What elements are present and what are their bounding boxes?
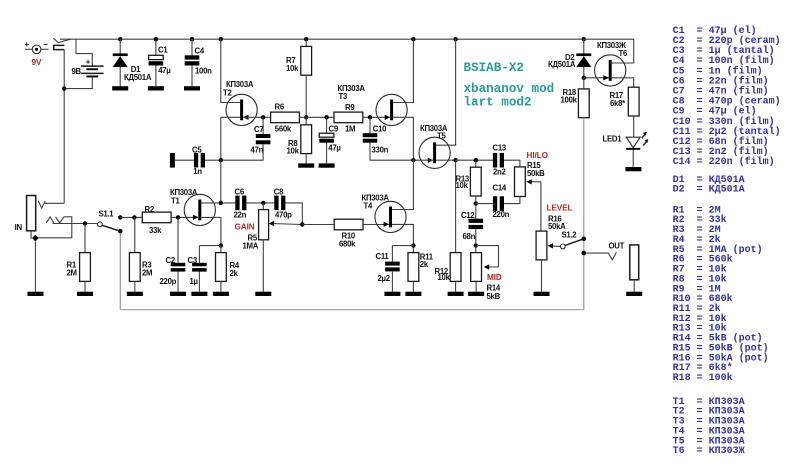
svg-text:КД501А: КД501А xyxy=(124,73,152,82)
svg-text:47n: 47n xyxy=(251,145,264,154)
resistor R7 xyxy=(305,39,307,46)
node S1.1 top contact xyxy=(118,215,122,219)
svg-text:T3: T3 xyxy=(339,92,348,101)
output jack xyxy=(630,245,639,280)
svg-text:330n: 330n xyxy=(372,145,389,154)
resistor R11 xyxy=(412,246,414,253)
svg-text:R9: R9 xyxy=(345,103,355,112)
svg-text:68n: 68n xyxy=(463,232,476,241)
node rail C4 xyxy=(190,37,194,41)
svg-text:100k: 100k xyxy=(561,96,578,105)
svg-text:C2: C2 xyxy=(166,256,176,265)
wire R13C14 xyxy=(476,203,493,205)
svg-text:C5: C5 xyxy=(192,145,202,154)
capacitor C11 xyxy=(392,245,413,247)
svg-text:T6: T6 xyxy=(619,49,628,58)
node T1 drain xyxy=(219,201,223,205)
plug tip of DC jack xyxy=(54,45,65,49)
resistor R18 xyxy=(583,78,585,89)
svg-text:C12: C12 xyxy=(461,211,475,220)
resistor R12 xyxy=(455,160,457,252)
wire rail start xyxy=(60,38,584,40)
node R13 bottom xyxy=(474,201,478,205)
node battery-minus junction xyxy=(62,86,66,90)
svg-text:T5: T5 xyxy=(437,132,446,141)
svg-text:C1: C1 xyxy=(158,45,168,54)
jack ring contact xyxy=(38,201,45,208)
svg-text:BSIAB-X2: BSIAB-X2 xyxy=(464,61,524,75)
node D2 R18 T6gate xyxy=(582,76,586,80)
DC power jack J1 xyxy=(32,45,41,54)
wire T2 source xyxy=(221,117,240,160)
svg-text:10k: 10k xyxy=(287,147,300,156)
svg-text:680k: 680k xyxy=(339,239,356,248)
svg-text:+: + xyxy=(25,40,30,49)
node R2 C2 T1gate xyxy=(176,215,180,219)
svg-text:47µ: 47µ xyxy=(328,143,341,152)
wire T5source to C13 xyxy=(456,159,493,161)
capacitor C1 xyxy=(155,39,157,55)
svg-text:1M: 1M xyxy=(345,125,355,134)
capacitor C14 xyxy=(493,196,497,211)
svg-text:C9: C9 xyxy=(329,124,339,133)
ground C9 xyxy=(326,162,328,164)
svg-text:9V: 9V xyxy=(32,58,42,67)
diode D2 xyxy=(583,39,585,54)
capacitor C7 xyxy=(262,117,264,134)
switch S1.1 xyxy=(98,222,103,227)
svg-text:2k: 2k xyxy=(420,260,429,269)
svg-text:1µ: 1µ xyxy=(190,277,199,286)
ground R16 xyxy=(541,291,543,293)
capacitor C2 xyxy=(177,217,179,262)
ground R12 xyxy=(455,291,457,293)
ground C4 xyxy=(191,85,193,87)
svg-text:MID: MID xyxy=(487,273,502,282)
switch S1.2 xyxy=(560,244,565,249)
svg-text:T2: T2 xyxy=(223,88,232,97)
svg-text:S1.1: S1.1 xyxy=(99,209,115,218)
R16 wiper xyxy=(550,245,561,248)
node R5 top xyxy=(261,201,265,205)
wire T6 drain xyxy=(584,39,634,63)
svg-text:2µ2: 2µ2 xyxy=(378,274,391,283)
svg-text:C14: C14 xyxy=(493,184,507,193)
wire T3 source xyxy=(393,117,414,160)
DC jack switch contact xyxy=(53,38,70,42)
wire battery negative xyxy=(64,77,92,88)
wire T2 gate xyxy=(243,116,271,118)
capacitor C4 xyxy=(191,39,193,55)
svg-text:1n: 1n xyxy=(193,167,202,176)
svg-text:xbananov mod: xbananov mod xyxy=(464,82,555,96)
potentiometer R5 xyxy=(262,203,264,210)
ground R11 xyxy=(412,291,414,293)
node rail T3 xyxy=(411,37,415,41)
wire R6out to R9 xyxy=(299,116,334,118)
svg-text:LED1: LED1 xyxy=(603,135,623,144)
resistor R17 xyxy=(628,87,639,116)
node OUT tap xyxy=(582,251,586,255)
node R14 top xyxy=(474,243,478,247)
resistor R13 xyxy=(475,160,477,167)
capacitor C9 xyxy=(326,117,328,133)
wire bypass net xyxy=(583,118,585,310)
capacitor C6 xyxy=(235,196,239,211)
ground C2 xyxy=(177,291,179,293)
R15 wiper xyxy=(529,181,541,183)
wire T5 drain xyxy=(436,39,456,145)
OUT jack tip contact xyxy=(608,252,616,259)
svg-text:T6 = КП303Ж: T6 = КП303Ж xyxy=(673,446,745,457)
svg-text:lart mod2: lart mod2 xyxy=(464,95,532,109)
svg-text:22n: 22n xyxy=(234,210,247,219)
svg-text:LEVEL: LEVEL xyxy=(547,203,573,212)
wire C6 to C8 xyxy=(246,202,274,204)
resistor R6 xyxy=(271,112,300,123)
capacitor C5 xyxy=(170,153,175,168)
capacitor C3 xyxy=(199,245,221,247)
svg-text:50kA: 50kA xyxy=(548,222,566,231)
wire T5 source xyxy=(436,159,456,161)
wire node to T1 drain xyxy=(220,160,222,203)
resistor R8 xyxy=(305,117,307,125)
ground IN xyxy=(34,241,36,291)
node T5 source xyxy=(453,158,457,162)
wire T1 drain xyxy=(201,202,235,204)
node rail D1 xyxy=(118,37,122,41)
jack sleeve node xyxy=(30,231,32,235)
svg-text:220p: 220p xyxy=(160,277,177,286)
svg-text:IN: IN xyxy=(15,223,23,232)
resistor R1 xyxy=(84,224,86,253)
node R3 top xyxy=(132,215,136,219)
svg-text:S1.2: S1.2 xyxy=(562,231,578,240)
node T5 gate xyxy=(411,158,415,162)
svg-text:10k: 10k xyxy=(438,273,451,282)
transistor T6 xyxy=(595,55,626,86)
svg-text:470p: 470p xyxy=(275,210,292,219)
svg-text:100n: 100n xyxy=(195,66,212,75)
ground LED1 xyxy=(632,166,634,168)
transistor T3 xyxy=(376,94,407,125)
ground C3 xyxy=(198,291,200,293)
svg-text:R2: R2 xyxy=(145,205,155,214)
svg-text:КД501А: КД501А xyxy=(548,60,576,69)
svg-text:2M: 2M xyxy=(142,269,152,278)
svg-text:C14 = 220n (film): C14 = 220n (film) xyxy=(673,156,775,168)
R5 wiper xyxy=(271,224,302,225)
svg-text:C3: C3 xyxy=(188,256,198,265)
svg-text:2n2: 2n2 xyxy=(493,168,506,177)
wire T6 source xyxy=(612,78,634,87)
ground R14 xyxy=(475,291,477,293)
svg-text:C13: C13 xyxy=(493,144,507,153)
svg-text:47µ: 47µ xyxy=(158,66,171,75)
wire battery positive xyxy=(76,39,92,66)
wire R2 to T1 gate xyxy=(171,216,198,218)
capacitor C12 xyxy=(475,204,477,219)
node C5 T1-T2 xyxy=(219,158,223,162)
jack tip contact xyxy=(46,217,54,223)
svg-text:2M: 2M xyxy=(67,269,77,278)
node S1.2 contact xyxy=(582,237,586,241)
capacitor C13 xyxy=(493,153,497,168)
potentiometer R15 xyxy=(515,167,526,197)
node R1 xyxy=(83,221,87,225)
wire R9 to T3 xyxy=(363,116,390,118)
ground R3 xyxy=(134,291,136,293)
transistor T4 xyxy=(375,201,406,232)
transistor T2 xyxy=(226,94,257,125)
node rail D2 xyxy=(582,37,586,41)
resistor R2 xyxy=(142,212,171,223)
battery 9B xyxy=(81,65,104,67)
ground R4 xyxy=(220,291,222,293)
ground R8 xyxy=(305,162,307,164)
svg-text:–: – xyxy=(44,40,49,49)
resistor R4 xyxy=(220,246,222,253)
input jack IN xyxy=(27,196,36,231)
R14 wiper xyxy=(476,246,499,267)
node T2 gate C7 xyxy=(261,115,265,119)
svg-text:R18 = 100k: R18 = 100k xyxy=(673,372,733,384)
node rail T2 xyxy=(219,37,223,41)
node T4 source xyxy=(411,243,415,247)
svg-text:560k: 560k xyxy=(275,125,292,134)
svg-text:220n: 220n xyxy=(493,210,510,219)
svg-text:T1: T1 xyxy=(171,196,180,205)
ground C11 xyxy=(391,291,393,293)
svg-text:D2 = КД501А: D2 = КД501А xyxy=(673,185,745,196)
svg-text:10k: 10k xyxy=(286,64,299,73)
wire C8 right down xyxy=(285,203,302,225)
wire T4 drain xyxy=(392,160,414,209)
svg-text:T4: T4 xyxy=(364,202,373,211)
ground OUT xyxy=(633,291,635,293)
node rail R7 xyxy=(304,37,308,41)
diode D1 xyxy=(119,39,121,54)
svg-text:C11: C11 xyxy=(376,252,390,261)
wire to OUT jack xyxy=(584,252,608,254)
svg-text:50kB: 50kB xyxy=(527,169,545,178)
node rail C1 xyxy=(154,37,158,41)
LED1 xyxy=(626,137,640,147)
wire T2 drain xyxy=(221,39,240,102)
svg-text:9B: 9B xyxy=(72,67,82,76)
ground R5 xyxy=(262,291,264,293)
capacitor C8 xyxy=(274,196,278,211)
potentiometer R14 xyxy=(475,246,477,253)
svg-text:R6: R6 xyxy=(275,103,285,112)
transistor T5 xyxy=(419,137,450,168)
svg-text:C6: C6 xyxy=(235,188,245,197)
capacitor C10 xyxy=(369,117,371,133)
svg-text:C4: C4 xyxy=(195,47,205,56)
svg-text:HI/LO: HI/LO xyxy=(527,151,549,160)
node R9 C10 T3gate xyxy=(368,115,372,119)
node S1.1 bottom contact xyxy=(118,229,122,233)
svg-text:6k8*: 6k8* xyxy=(610,99,626,108)
wire S1.1 to R2 xyxy=(120,216,142,218)
wire T4 source xyxy=(392,224,414,245)
node T1 source xyxy=(219,243,223,247)
wire T1 source xyxy=(201,217,221,245)
resistor R9 xyxy=(334,112,363,123)
node R6 R7 R8 xyxy=(304,115,308,119)
wire T3 drain xyxy=(393,39,414,102)
wire plug to ring contact xyxy=(63,50,65,204)
svg-text:C10: C10 xyxy=(373,124,387,133)
resistor R3 xyxy=(134,217,136,252)
ground R1 xyxy=(84,291,86,293)
node R9 C9 xyxy=(324,115,328,119)
potentiometer R16 xyxy=(536,231,547,260)
node rail T5 xyxy=(453,37,457,41)
svg-text:10k: 10k xyxy=(456,181,469,190)
node R13 top xyxy=(474,158,478,162)
svg-text:OUT: OUT xyxy=(609,241,625,250)
transistor T1 xyxy=(184,194,215,225)
svg-text:+: + xyxy=(86,58,91,67)
svg-text:GAIN: GAIN xyxy=(235,223,255,232)
ground D1 xyxy=(119,85,121,87)
node R5wiper R10 xyxy=(300,222,304,226)
ground C1 xyxy=(155,85,157,87)
wire T6 gate xyxy=(584,77,609,79)
svg-text:5kB: 5kB xyxy=(487,292,501,301)
wire R10 to T4 gate xyxy=(363,224,389,226)
svg-text:C7: C7 xyxy=(254,125,263,134)
svg-text:33k: 33k xyxy=(149,226,162,235)
wire T5 gate xyxy=(413,159,433,161)
svg-text:C8: C8 xyxy=(274,188,284,197)
svg-text:1MA: 1MA xyxy=(243,242,259,251)
resistor R10 xyxy=(302,224,334,226)
svg-text:2k: 2k xyxy=(230,269,239,278)
